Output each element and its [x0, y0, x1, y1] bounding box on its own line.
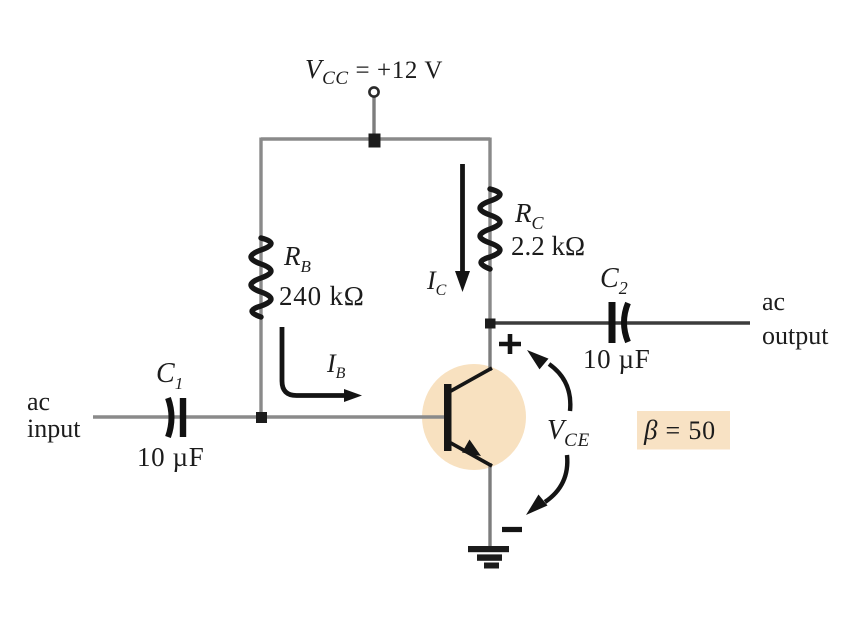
- svg-text:output: output: [762, 321, 829, 350]
- minus sign VCE: [502, 527, 522, 532]
- svg-text:ac: ac: [27, 387, 50, 416]
- wire left branch: [259, 138, 262, 420]
- VCE arc top: [549, 364, 570, 411]
- capacitor C2 left plate: [609, 302, 616, 343]
- beta box: [637, 411, 730, 450]
- ground: [468, 546, 509, 569]
- transistor Q1 emitter arrowhead: [462, 440, 481, 457]
- transistor highlight circle: [422, 364, 526, 470]
- svg-text:C2: C2: [600, 263, 628, 298]
- VCE arc bottom: [545, 455, 567, 502]
- svg-text:10 µF: 10 µF: [583, 344, 650, 374]
- svg-text:ac: ac: [762, 287, 785, 316]
- capacitor C1 left plate (curved): [168, 398, 172, 437]
- svg-text:VCC = +12 V: VCC = +12 V: [305, 54, 443, 89]
- wire top rail horizontal: [261, 137, 490, 140]
- svg-text:IB: IB: [326, 349, 346, 382]
- svg-text:VCE: VCE: [547, 415, 590, 451]
- wire ac output horizontal: [490, 321, 750, 324]
- current arrow IC: [460, 164, 465, 273]
- wire vcc terminal to top rail: [372, 96, 375, 140]
- transistor Q1 base bar: [444, 384, 452, 451]
- svg-text:β = 50: β = 50: [643, 415, 716, 445]
- plus sign VCE: [499, 334, 521, 354]
- svg-text:RB: RB: [283, 241, 312, 276]
- capacitor C2 right plate (curved): [624, 303, 628, 342]
- svg-text:C1: C1: [156, 358, 183, 393]
- junction node collector: [485, 319, 496, 329]
- wire ac input horizontal: [93, 415, 446, 418]
- transistor Q1 emitter lead: [449, 442, 492, 466]
- wire emitter down: [488, 463, 491, 549]
- junction node top: [369, 134, 381, 148]
- svg-text:IC: IC: [426, 266, 447, 299]
- current arrow IB: [282, 327, 347, 396]
- svg-text:input: input: [27, 414, 81, 443]
- transistor Q1 collector lead: [449, 368, 492, 392]
- resistor RC: [480, 189, 500, 269]
- junction node base rail: [256, 412, 267, 423]
- wire collector node to transistor: [488, 322, 491, 371]
- svg-text:RC: RC: [514, 198, 545, 233]
- svg-text:240 kΩ: 240 kΩ: [279, 281, 365, 311]
- resistor RB: [251, 238, 271, 317]
- wire right branch upper: [488, 138, 491, 325]
- svg-text:2.2 kΩ: 2.2 kΩ: [511, 231, 585, 261]
- capacitor C1 right plate: [180, 398, 186, 437]
- svg-text:10 µF: 10 µF: [137, 442, 204, 472]
- VCC terminal circle: [369, 87, 378, 96]
